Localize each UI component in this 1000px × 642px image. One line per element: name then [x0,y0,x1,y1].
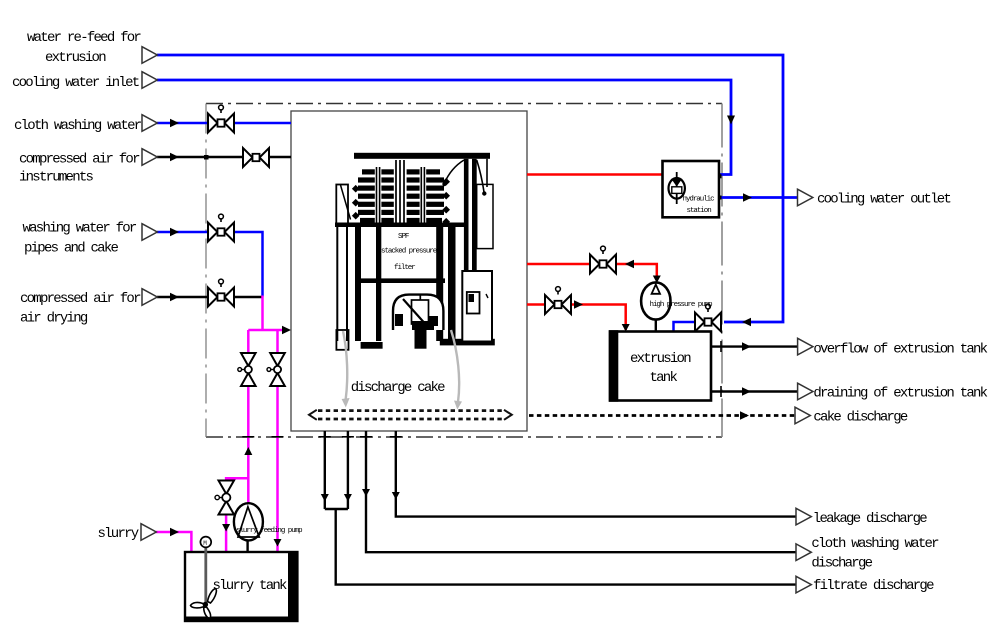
wire: red line to extrusion tank [527,305,626,331]
right boundary flags [795,189,813,593]
filter unit enclosure box [291,111,527,431]
control cabinet [462,271,492,342]
wire: filtrate discharge [325,509,796,585]
wire: pump recirculation branch (magenta) [226,478,248,551]
svg-text:SPF: SPF [398,233,409,241]
plate stack [358,169,444,222]
flag: slurry [141,524,156,541]
flag: cake discharge [795,407,810,424]
SPF filter machine [335,153,495,350]
flag: water re-feed [142,47,157,64]
flag: cloth washing water [142,115,157,132]
svg-text:stacked pressure: stacked pressure [381,248,437,256]
wire: compressed air for air drying (black) [157,296,263,298]
svg-text:tank: tank [650,370,678,386]
wire: cooling water inlet (blue) [157,80,731,175]
junction dots at hydraulic station [718,174,722,178]
svg-text:pipes and cake: pipes and cake [24,241,118,257]
svg-text:cloth washing water: cloth washing water [14,118,142,134]
junction dot air line at boundary [204,155,209,160]
wire: slurry inlet (magenta) [156,532,191,551]
wire: water re-feed for extrusion (blue) [157,55,783,322]
wire: slurry feed riser (magenta) [247,330,250,504]
svg-text:filter: filter [394,264,415,272]
svg-text:extrusion: extrusion [45,50,106,66]
svg-text:compressed air for: compressed air for [19,152,140,168]
wire: red high-pressure feed line [527,264,657,277]
svg-text:washing water for: washing water for [23,221,137,237]
svg-text:cloth washing water: cloth washing water [811,536,939,552]
valve V6 red tank valve [545,287,571,314]
pedestal and base feet [415,330,427,349]
svg-text:cake discharge: cake discharge [813,410,907,426]
valve V8 vertical feed valve [238,353,256,386]
wire: magenta drop from air/water junction [261,296,264,331]
wire: leakage discharge [396,431,796,517]
valve V2 compressed air instruments [243,148,269,167]
valve V1 cloth washing water [208,105,234,132]
left boundary flags [141,47,157,541]
svg-text:slurry tank: slurry tank [213,578,288,594]
flag: cooling water outlet [798,189,813,206]
flange ticks at boundary crossings [242,341,721,437]
flag: overflow [798,338,813,355]
svg-text:discharge: discharge [811,556,872,572]
svg-text:air drying: air drying [20,311,88,327]
left column with brace [336,185,348,225]
valve V7 blue extrusion tank valve [695,304,721,331]
flag: cooling water inlet [142,72,157,89]
cake conveyor (dotted bar) [318,411,503,419]
wire: blue inlet to extrusion tank via valve [674,322,695,332]
text box bottom bar [356,278,445,283]
svg-text:cooling water inlet: cooling water inlet [12,75,139,91]
discharge dome mechanism [393,295,443,330]
flow arrows (black) [170,116,752,547]
hydraulic station U1 [663,161,720,217]
wire: filtrate discharge legs [325,431,348,509]
flag: draining [798,383,813,400]
wire: cooling water outlet (blue) [720,196,797,199]
svg-text:station: station [687,207,712,215]
svg-text:slurry feeding pump: slurry feeding pump [236,527,302,535]
wire: washing water for pipes and cake (blue) [157,232,263,297]
slurry tank T1 [184,551,297,622]
discharge cake gray arrows [343,330,459,402]
right columns [464,159,469,271]
wire: magenta feed header tee [248,329,286,332]
wire: cloth washing water (blue) [157,122,291,125]
svg-text:slurry: slurry [98,526,139,542]
flag: washing water pipes [142,224,157,241]
svg-text:hydraulic: hydraulic [683,196,715,204]
valve V10 slurry recirculation valve [215,481,234,515]
wire: compressed air for instruments (black) [157,156,291,158]
wire: red hydraulic supply to hydraulic station [527,173,663,176]
tie-rod channels [375,167,382,224]
valve V3 washing water pipes/cake [208,214,234,241]
svg-text:instruments: instruments [19,170,94,186]
svg-text:draining of extrusion tank: draining of extrusion tank [813,386,987,402]
flag: compressed air drying [142,289,157,306]
right frame panel [477,184,493,248]
svg-text:overflow of extrusion tank: overflow of extrusion tank [813,342,987,358]
wire: cake discharge (dashed) [529,414,795,417]
wire: cloth washing water discharge [366,431,796,552]
catenary cables [445,160,465,183]
svg-text:extrusion: extrusion [630,351,691,367]
svg-text:cooling water outlet: cooling water outlet [817,192,950,208]
svg-text:high pressure pump: high pressure pump [650,301,713,309]
svg-text:leakage discharge: leakage discharge [813,511,927,527]
main rail [335,223,466,228]
valve V4 compressed air drying [208,279,234,306]
wire: draining of extrusion tank [711,390,797,392]
svg-text:filtrate discharge: filtrate discharge [813,578,934,594]
top beam [354,153,490,159]
svg-text:M: M [203,540,207,547]
wire: slurry return line (magenta) [276,330,279,551]
battery-limit boundary box (dash-dot) [206,104,722,438]
extrusion tank T2 [609,330,711,402]
high pressure pump P2 [641,282,712,331]
valve V5 red feed valve [590,246,616,273]
valve V9 vertical return valve [267,353,285,386]
flag: cloth washing discharge [796,544,811,561]
flag: filtrate [796,576,811,593]
side nubs [352,178,450,226]
wire: overflow of extrusion tank [711,345,797,347]
agitator M [191,537,217,618]
flag: compressed air instruments [142,149,157,166]
svg-text:discharge cake: discharge cake [351,380,445,396]
svg-text:water re-feed for: water re-feed for [27,30,141,46]
flag: leakage [796,508,811,525]
slurry feeding pump P1 [234,503,302,552]
columns [336,227,338,341]
svg-text:compressed air for: compressed air for [20,291,141,307]
